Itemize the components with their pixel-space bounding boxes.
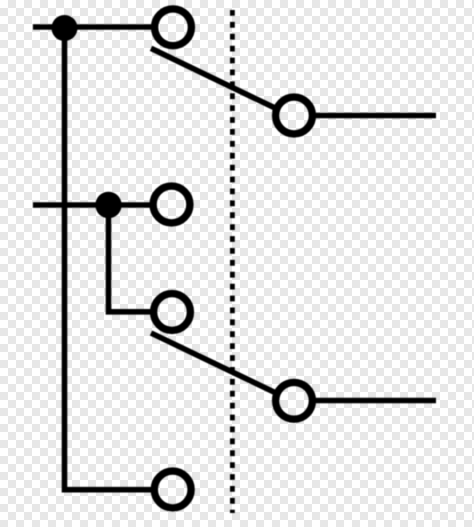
terminal circle C1 (pole 1 common) — [155, 9, 192, 46]
wire: drop from junction D2 down and across to terminal C4 — [109, 205, 152, 312]
wire: left vertical bus from junction D1 down and across to bottom terminal — [65, 27, 153, 490]
terminal circle C6 (bottom terminal) — [154, 471, 191, 508]
junction dot D2 — [95, 192, 121, 218]
switch arm: pole 2 actuator blade — [151, 333, 277, 394]
wire: throw 1 output to the right — [315, 113, 437, 119]
junction dot D1 — [52, 15, 78, 41]
wire: pole 2 stub from left to terminal C3 — [33, 202, 151, 208]
terminal circle C4 (pole 2 lower contact) — [154, 294, 191, 331]
terminal circle C2 (throw 1 contact) — [276, 97, 313, 134]
wire: pole 1 stub from left to common terminal — [33, 24, 152, 30]
switch arm: pole 1 actuator blade — [151, 48, 278, 109]
wire: throw 2 output to the right — [315, 398, 437, 404]
terminal circle C5 (throw 2 contact) — [276, 382, 313, 419]
terminal circle C3 (pole 2 common) — [153, 186, 190, 223]
mechanical linkage: dotted tie line between poles — [230, 10, 235, 513]
